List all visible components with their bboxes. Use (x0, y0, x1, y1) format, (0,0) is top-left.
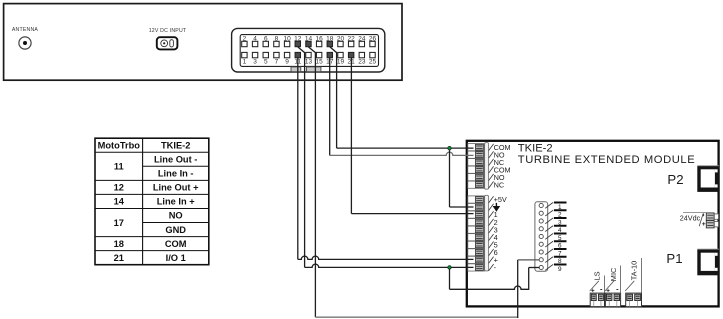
svg-text:18: 18 (114, 239, 124, 249)
terminal 1 (468, 211, 485, 218)
svg-text:LS: LS (593, 271, 602, 280)
svg-text:+: + (591, 287, 595, 294)
terminal 2 (468, 219, 485, 226)
svg-text:14: 14 (114, 197, 125, 207)
terminal 3 (468, 226, 485, 233)
terminal - (468, 264, 485, 271)
svg-text:MIC: MIC (609, 267, 618, 281)
P2 connector (697, 165, 719, 167)
terminal GND arrow (468, 203, 485, 210)
svg-text:P2: P2 (667, 172, 683, 187)
svg-text:+: + (606, 287, 610, 294)
svg-text:1: 1 (243, 59, 247, 66)
MIC connector block (605, 293, 620, 307)
svg-text:-: - (616, 285, 619, 294)
svg-text:11: 11 (114, 162, 124, 172)
antenna connector (19, 37, 31, 49)
LS leader slash (590, 281, 599, 291)
terminal NC (468, 181, 485, 188)
svg-text:13: 13 (305, 59, 313, 66)
header pin 1 (539, 203, 543, 207)
header pin 9 (539, 265, 543, 269)
svg-text:I/O 1: I/O 1 (166, 253, 186, 263)
wire junction branch to module GND terminal (449, 148, 451, 207)
svg-text:19: 19 (337, 59, 345, 66)
P1 connector (697, 249, 719, 251)
pin squares top row (242, 41, 247, 46)
svg-text:ANTENNA: ANTENNA (12, 27, 39, 33)
TA-10 leader slash (625, 281, 634, 291)
svg-text:NC: NC (494, 180, 505, 189)
header pin 4 (539, 227, 543, 231)
header pin 7 (539, 250, 543, 254)
connector keying tab right (307, 67, 321, 72)
terminal strip group 2 body (485, 195, 489, 271)
wire junction branch to header pin 9 (449, 267, 451, 289)
accessory connector inner body (240, 35, 378, 67)
terminal NO (468, 151, 485, 158)
svg-text:P1: P1 (666, 251, 682, 266)
terminal NO (468, 174, 485, 181)
svg-text:3: 3 (253, 59, 257, 66)
TKIE-2 module outline (467, 141, 719, 307)
connection table frame (95, 138, 209, 265)
svg-text:12V DC INPUT: 12V DC INPUT (149, 28, 187, 34)
svg-text:NO: NO (169, 211, 183, 221)
junction dot Line-/pin9 (448, 266, 451, 269)
svg-text:12: 12 (114, 183, 124, 193)
header pin 8 (539, 258, 543, 262)
svg-text:TKIE-2: TKIE-2 (161, 140, 190, 150)
wire pin 12 to module Line - terminal (298, 47, 305, 268)
terminal 4 (468, 234, 485, 241)
svg-text:-: - (600, 285, 603, 294)
svg-text:9: 9 (558, 266, 562, 273)
terminal 6 (468, 249, 485, 256)
svg-text:17: 17 (114, 218, 124, 228)
connector keying tab left (291, 67, 301, 72)
terminal strip group 1 body (485, 143, 489, 190)
svg-text:COM: COM (165, 239, 187, 249)
wire pin 18 to module COM terminal (330, 47, 337, 148)
svg-text:GND: GND (165, 225, 186, 235)
svg-text:Line In +: Line In + (157, 197, 196, 207)
svg-text:5: 5 (264, 59, 268, 66)
svg-text:Line In -: Line In - (158, 169, 194, 179)
terminal +5V (468, 196, 485, 203)
svg-text:+: + (702, 221, 706, 228)
svg-text:7: 7 (275, 59, 279, 66)
radio panel MotoTrbo rear (4, 4, 402, 81)
svg-text:Line Out -: Line Out - (154, 155, 197, 165)
svg-text:9: 9 (285, 59, 289, 66)
12V DC input jack (157, 37, 178, 49)
wire pin 14 to header pin 8 (308, 47, 315, 317)
junction dot COM/GND (448, 146, 451, 149)
LS connector block (590, 293, 604, 307)
terminal NC (468, 159, 485, 166)
svg-text:15: 15 (316, 59, 324, 66)
accessory connector outer shell (232, 28, 385, 72)
header J1 body (535, 202, 548, 271)
svg-text:25: 25 (369, 59, 377, 66)
svg-text:Line Out +: Line Out + (153, 183, 199, 193)
wire pin 21 to module I/O 1 terminal (350, 58, 352, 214)
svg-text:21: 21 (114, 253, 124, 263)
svg-text:24Vdc: 24Vdc (680, 214, 701, 223)
pin squares bottom row (242, 52, 247, 57)
24Vdc terminal block (706, 213, 714, 220)
header pin 3 (539, 219, 543, 223)
TA-10 connector block (626, 293, 642, 307)
wire pin 11 to module Line + terminal (297, 58, 299, 260)
svg-text:+5V: +5V (494, 195, 507, 204)
terminal + (468, 256, 485, 263)
terminal 5 (468, 241, 485, 248)
svg-text:TURBINE EXTENDED MODULE: TURBINE EXTENDED MODULE (518, 154, 695, 166)
svg-text:23: 23 (358, 59, 366, 66)
header pin 6 (539, 242, 543, 246)
svg-text:MotoTrbo: MotoTrbo (98, 140, 141, 150)
header pin 2 (539, 211, 543, 215)
MIC leader slash (605, 281, 614, 291)
svg-text:TA-10: TA-10 (630, 261, 639, 281)
terminal COM (468, 144, 485, 151)
svg-text:TKIE-2: TKIE-2 (518, 143, 553, 155)
wire pin 17 to module NO terminal (329, 58, 331, 156)
terminal COM (468, 166, 485, 173)
header pin 5 (539, 234, 543, 238)
